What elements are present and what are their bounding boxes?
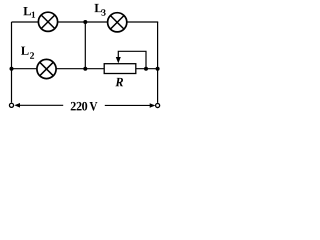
node junction top <box>83 20 87 24</box>
wire top row <box>12 21 159 23</box>
label L2 <box>21 47 34 59</box>
resistor R body <box>104 64 136 74</box>
lamp L2 <box>37 59 56 78</box>
node junction middle <box>83 67 87 71</box>
label 220 V <box>71 102 98 111</box>
rheostat wiper arrowhead <box>116 57 121 63</box>
lamp L3 <box>108 13 127 32</box>
terminal left (open) <box>9 103 13 107</box>
node left rail / L2 wire <box>10 67 14 71</box>
label R <box>115 78 123 86</box>
node right rail / middle wire <box>156 67 160 71</box>
node wiper tap <box>144 67 148 71</box>
label L3 <box>95 4 106 16</box>
wire left rail <box>11 22 13 103</box>
lamp L1 <box>38 12 57 31</box>
wire middle row <box>12 68 158 70</box>
wire junction vertical (top to middle) <box>84 22 86 69</box>
220V arrow right <box>105 103 156 108</box>
220V arrow left <box>14 103 63 108</box>
terminal right (open) <box>156 103 160 107</box>
wire right rail <box>157 22 159 103</box>
rheostat wiper wire <box>118 51 146 68</box>
label L1 <box>23 7 35 18</box>
